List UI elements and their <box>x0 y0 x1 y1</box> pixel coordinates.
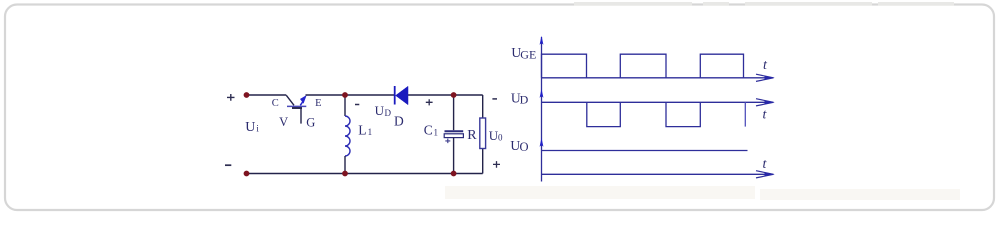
output U0 label <box>489 128 503 143</box>
label C1 <box>424 123 438 138</box>
capacitor C1 bottom plate (hollow box) <box>444 134 463 138</box>
label UGE <box>511 45 536 61</box>
svg-text:D: D <box>394 114 404 129</box>
diode D cathode bar <box>394 86 396 105</box>
UO axis up-arrowhead <box>540 138 544 147</box>
label UD (waveform) <box>511 91 529 107</box>
svg-text:D: D <box>385 108 392 118</box>
UD waveform pulses <box>587 102 701 126</box>
resistor R box <box>480 118 486 149</box>
svg-text:C: C <box>272 98 279 109</box>
label UD (diode voltage) <box>375 103 392 118</box>
node: L1 bottom junction <box>342 171 348 177</box>
label + (UD right polarity) <box>426 99 433 105</box>
svg-text:E: E <box>315 98 321 109</box>
UGE time axis arrowhead <box>756 74 775 81</box>
label L1 <box>358 123 372 138</box>
svg-text:R: R <box>467 128 477 143</box>
UO dc level line <box>542 150 748 152</box>
svg-text:D: D <box>520 92 529 106</box>
output + polarity label <box>493 161 500 168</box>
svg-text:0: 0 <box>498 133 503 143</box>
UO time axis <box>542 173 771 175</box>
svg-text:L: L <box>358 123 366 138</box>
capacitor C1 polarity mark <box>445 139 450 144</box>
svg-text:G: G <box>306 116 315 130</box>
waveform common vertical axis <box>541 37 543 182</box>
UD waveform partial falling edge <box>744 102 746 126</box>
UD time axis arrowhead <box>756 99 775 106</box>
UD time axis <box>542 101 771 103</box>
input + terminal label <box>227 94 235 101</box>
capacitor C1 lead (bottom) <box>453 138 455 174</box>
faint screenshot remnant top strip <box>574 2 954 6</box>
transistor V channel bar <box>287 105 306 107</box>
UGE axis up-arrowhead <box>540 36 544 45</box>
UD axis up-arrowhead <box>540 89 544 98</box>
top rail wire (transistor E to diode) <box>306 94 395 96</box>
node: input bottom <box>244 171 250 177</box>
inductor L1 lead (top) <box>344 95 346 116</box>
transistor V gate lead wire <box>300 108 302 124</box>
source Ui label <box>245 120 259 135</box>
top rail wire (input + to transistor C) <box>247 94 287 96</box>
svg-text:1: 1 <box>434 128 439 138</box>
svg-text:O: O <box>520 140 529 154</box>
svg-text:GE: GE <box>520 47 536 61</box>
top rail wire (diode to right corner) <box>408 94 483 96</box>
node: C1 top junction <box>451 92 457 98</box>
output - polarity label <box>492 98 497 100</box>
svg-text:U: U <box>245 120 255 135</box>
svg-text:U: U <box>375 103 385 118</box>
UGE waveform pulses <box>542 54 744 78</box>
inductor L1 coil <box>345 116 350 156</box>
UO time axis arrowhead <box>756 171 775 178</box>
node: input top <box>244 92 250 98</box>
faint screenshot remnant bottom strip <box>445 186 960 200</box>
node: L1 top junction <box>342 92 348 98</box>
capacitor C1 lead (top) <box>453 95 455 130</box>
right branch wire (through R) <box>482 95 484 174</box>
svg-text:C: C <box>424 123 433 138</box>
inductor L1 lead (bottom) <box>344 156 346 174</box>
transistor V gate plate <box>292 107 302 109</box>
label UO (waveform) <box>510 138 528 154</box>
UGE time axis <box>542 77 771 79</box>
node: C1 bottom junction <box>451 171 457 177</box>
svg-text:V: V <box>279 115 288 129</box>
diode D triangle <box>396 86 408 104</box>
bottom rail wire <box>247 173 483 175</box>
input - terminal label <box>225 164 231 166</box>
svg-text:1: 1 <box>368 127 373 137</box>
label - (UD left polarity) <box>355 104 359 106</box>
capacitor C1 top plate <box>445 130 464 132</box>
transistor V emitter arrow <box>300 96 306 105</box>
transistor V collector diagonal <box>286 95 294 105</box>
